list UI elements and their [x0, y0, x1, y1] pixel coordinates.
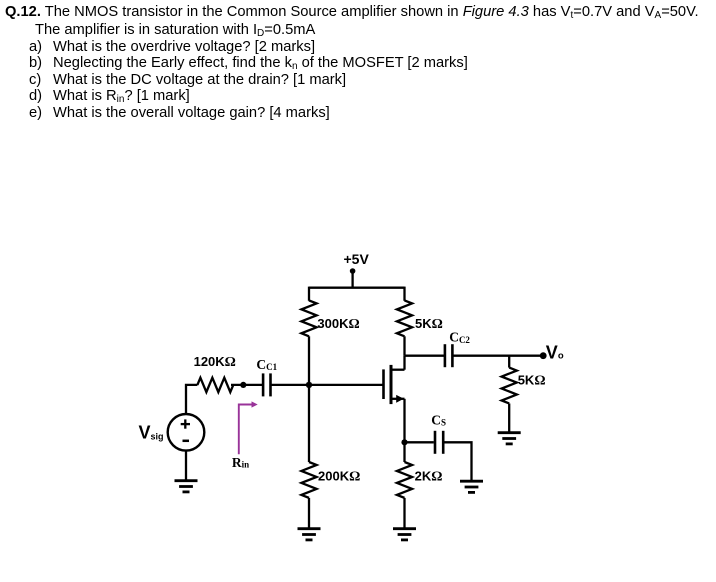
transistor Q1 NMOS — [384, 365, 405, 404]
svg-text:CC2: CC2 — [449, 330, 470, 345]
svg-text:CS: CS — [431, 413, 446, 428]
wire: drain to CC2 — [405, 355, 445, 357]
ground under R5 — [498, 433, 521, 444]
node: +5V supply dot — [350, 268, 356, 274]
wire: rail to R1 — [308, 287, 310, 301]
node: source junction — [401, 439, 407, 445]
svg-text:120KΩ: 120KΩ — [194, 354, 236, 370]
item c — [0, 71, 1, 73]
item b — [0, 54, 1, 56]
node: Vo output — [540, 352, 547, 359]
source Vsig — [168, 414, 205, 451]
wire: source to R4 — [403, 442, 405, 462]
capacitor CC2 — [445, 344, 453, 367]
wire: top supply rail — [309, 287, 405, 289]
wire: R4 to ground — [403, 498, 405, 529]
wire: Vo to R5 — [508, 356, 510, 368]
wire: R5 to ground — [508, 404, 510, 433]
resistor R3 5K drain — [397, 300, 412, 336]
node: gate bias junction — [306, 382, 312, 388]
wire: gate node to R2 — [308, 385, 310, 462]
wire: rail to R3 — [403, 287, 405, 301]
ground under CS — [460, 481, 483, 492]
ground under R2 — [298, 529, 321, 540]
wire: +5V stub — [351, 271, 353, 288]
wire: R3 bottom to drain node — [403, 336, 405, 355]
wire: R1 bottom to gate node — [308, 336, 310, 385]
wire: R6 to input node — [231, 384, 263, 386]
wire: Vsig to ground — [185, 451, 187, 481]
resistor R5 5K load — [502, 368, 517, 404]
wire: source to CS — [405, 441, 434, 443]
wire: gate wire — [309, 384, 384, 386]
svg-text:Vo: Vo — [546, 342, 564, 362]
item a — [0, 38, 1, 40]
svg-text:+5V: +5V — [344, 251, 370, 267]
wire: R2 to ground — [308, 498, 310, 529]
svg-text:CC1: CC1 — [256, 357, 277, 372]
wire: Vsig up to R6 — [186, 385, 197, 414]
wire: CC1 to gate node — [271, 384, 310, 386]
resistor R6 120K — [197, 378, 233, 392]
Rin arrow — [239, 401, 258, 454]
capacitor CS — [435, 431, 443, 454]
resistor R4 2K — [397, 462, 412, 498]
ground under Vsig — [175, 481, 198, 492]
node: input node — [240, 382, 246, 388]
wire: drain vertical — [403, 356, 405, 370]
resistor R1 300K — [301, 300, 316, 336]
capacitor CC1 — [263, 373, 270, 396]
wire: source vertical — [403, 399, 405, 443]
item e — [0, 104, 1, 106]
resistor R2 200K — [301, 462, 316, 498]
svg-text:5KΩ: 5KΩ — [518, 373, 546, 389]
wire: CC2 to Vo — [452, 355, 543, 357]
ground under R4 — [393, 529, 416, 540]
question text line 2 — [35, 22, 315, 38]
svg-text:Rin: Rin — [232, 455, 249, 470]
svg-text:5KΩ: 5KΩ — [415, 316, 443, 332]
svg-text:300KΩ: 300KΩ — [317, 316, 359, 332]
question text line 1 — [5, 4, 699, 20]
svg-text:2KΩ: 2KΩ — [415, 468, 443, 484]
svg-text:200KΩ: 200KΩ — [318, 468, 360, 484]
item d — [0, 87, 1, 89]
svg-text:Vsig: Vsig — [139, 423, 164, 443]
wire: CS to ground — [443, 442, 471, 481]
